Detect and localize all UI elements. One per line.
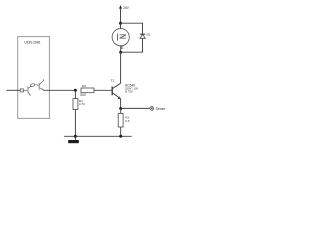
transistor T1 <box>112 83 120 99</box>
wire to sense terminal <box>121 107 150 109</box>
svg-text:R2: R2 <box>82 84 86 88</box>
wire R3 to rail <box>120 127 122 136</box>
wire Q2 emitter down to output <box>42 89 44 92</box>
transistor Q1 (internal) <box>28 86 31 95</box>
wire junction to R1 <box>74 90 76 98</box>
svg-text:B:750: B:750 <box>125 90 133 94</box>
svg-text:4.7k: 4.7k <box>79 102 85 106</box>
node rail junction right <box>119 135 122 138</box>
wire collector <box>120 52 122 83</box>
node base junction <box>74 89 77 92</box>
motor M1 <box>112 29 129 46</box>
node rail junction left <box>74 135 77 138</box>
resistor internal (oval) <box>30 83 35 87</box>
svg-text:D1: D1 <box>147 33 151 37</box>
input pin square <box>20 89 23 92</box>
node supply junction <box>119 22 122 25</box>
wire diode bottom branch <box>121 38 143 52</box>
svg-text:560: 560 <box>80 93 86 97</box>
wire motor to bottom junction <box>120 46 122 52</box>
wire resistor to Q2 base <box>35 84 39 87</box>
supply 25V arrow <box>119 5 122 8</box>
wire emitter down <box>120 99 122 109</box>
wire junction to motor <box>120 23 122 29</box>
wire supply down <box>120 9 122 24</box>
svg-text:T1: T1 <box>111 79 115 83</box>
ground <box>74 136 76 140</box>
ground rail <box>64 135 132 137</box>
input wire <box>7 89 21 91</box>
node emitter junction <box>119 107 122 110</box>
svg-text:0.5: 0.5 <box>125 119 130 123</box>
IC U1 UDN-2981 box <box>18 37 50 119</box>
wire output to base junction <box>43 89 75 91</box>
resistor R2 <box>81 88 94 93</box>
resistor R1 <box>73 99 78 110</box>
terminal Sense <box>150 107 154 111</box>
wire pin to Q1 base <box>23 89 27 91</box>
resistor R3 <box>118 114 123 128</box>
wire R1 to ground rail <box>74 110 76 137</box>
wire diode top branch <box>121 23 143 34</box>
diode D1 <box>140 33 145 35</box>
svg-text:E: E <box>121 45 124 50</box>
svg-text:UDN-2981: UDN-2981 <box>24 40 40 44</box>
transistor Q2 (internal) <box>39 79 44 90</box>
wire junction to R3 <box>120 109 122 114</box>
svg-text:25V: 25V <box>123 6 130 10</box>
wire R2 to base <box>94 89 112 91</box>
svg-text:Sense: Sense <box>156 107 166 111</box>
node motor bottom junction <box>119 51 122 54</box>
